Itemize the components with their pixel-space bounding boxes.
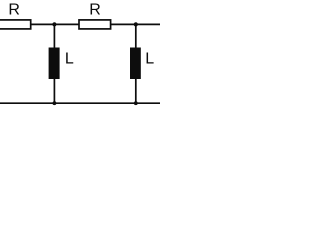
bottom rail wire [0,102,160,104]
wire from node A down to L1 [53,24,55,48]
wire from L1 down to bottom rail [53,79,55,104]
node B junction dot [134,22,138,26]
svg-text:L: L [145,51,154,68]
resistor R1 [0,20,31,29]
svg-text:L: L [65,51,74,68]
wire top from R2 to right edge [111,23,161,25]
inductor L2 [130,48,141,80]
inductor L1 [49,48,60,80]
wire from L2 down to bottom rail [135,79,137,104]
bottom junction dot under L1 [53,101,57,105]
wire top between R1 and R2 [31,23,80,25]
svg-text:R: R [8,2,20,19]
node A junction dot [52,22,56,26]
wire from node B down to L2 [135,24,137,48]
bottom junction dot under L2 [134,101,138,105]
svg-text:R: R [89,2,101,19]
resistor R2 [79,20,111,29]
